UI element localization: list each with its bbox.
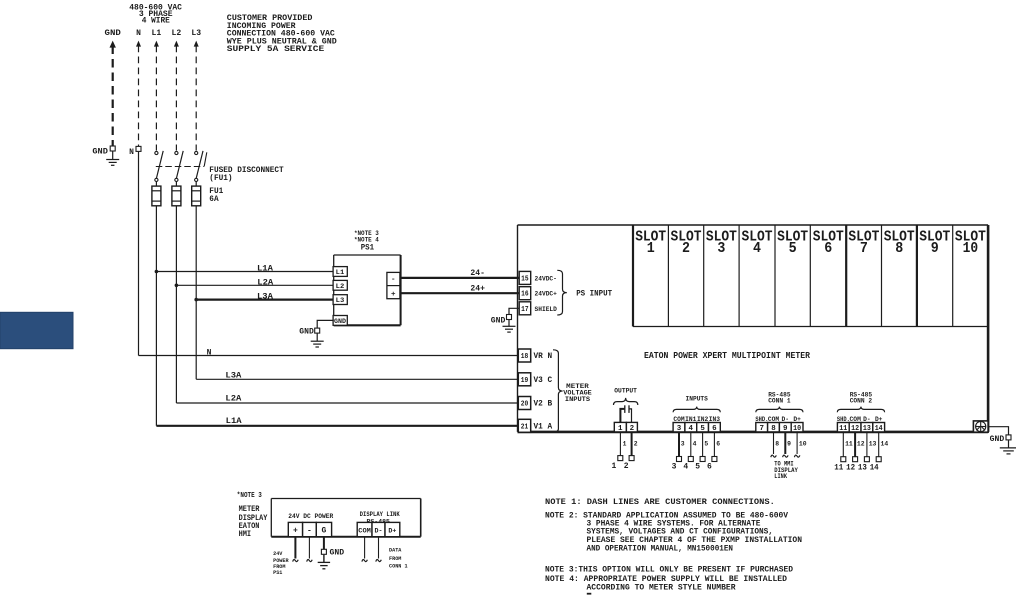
terminal square display GND: [321, 549, 326, 554]
svg-text:*NOTE 3: *NOTE 3: [237, 492, 262, 500]
wire display + 24V: [294, 537, 296, 559]
svg-text:SUPPLY 5A SERVICE: SUPPLY 5A SERVICE: [227, 45, 325, 54]
svg-text:DATA: DATA: [389, 547, 402, 554]
arrow L1 feeder: [154, 41, 159, 47]
svg-text:FROM: FROM: [389, 555, 402, 562]
svg-text:4 WIRE: 4 WIRE: [142, 17, 170, 26]
wire N feeder dashed: [138, 46, 140, 147]
terminal 16 24VDC+: [519, 287, 531, 300]
wire L2 feeder dashed: [175, 46, 177, 151]
svg-text:PS INPUT: PS INPUT: [576, 290, 612, 299]
wire input 5: [702, 432, 704, 457]
svg-text:NOTE 3:THIS OPTION WILL ONLY B: NOTE 3:THIS OPTION WILL ONLY BE PRESENT …: [545, 566, 793, 575]
slot divider 7: [845, 225, 847, 327]
svg-text:PS1: PS1: [361, 244, 375, 253]
wire display G to ground: [323, 537, 325, 550]
terminal 3 input: [673, 423, 685, 432]
fuse FU1-3: [192, 186, 201, 206]
svg-text:DISPLAY LINK: DISPLAY LINK: [360, 511, 400, 518]
svg-text:12: 12: [846, 463, 855, 472]
svg-text:4: 4: [753, 241, 761, 257]
brace RS-485 CONN 1: [756, 407, 803, 413]
svg-text:1: 1: [647, 241, 655, 257]
display terminal -: [303, 522, 317, 536]
fuse FU1-1: [152, 186, 161, 206]
wire conn1 8: [773, 432, 775, 454]
wire display -: [308, 537, 310, 559]
wire L1A tap to PS1: [156, 271, 333, 273]
terminal 5 input: [697, 423, 709, 432]
svg-text:L3A: L3A: [257, 292, 273, 301]
display terminal D-: [372, 522, 385, 536]
brace INPUTS: [673, 407, 720, 413]
svg-text:N: N: [129, 148, 134, 157]
svg-text:3: 3: [717, 241, 725, 257]
svg-text:1: 1: [611, 462, 616, 471]
svg-text:9: 9: [931, 241, 939, 257]
junction L3 tap: [194, 298, 198, 302]
wire L2A tap to PS1: [176, 284, 333, 286]
svg-text:12: 12: [851, 425, 859, 433]
svg-text:21: 21: [521, 423, 529, 431]
wire conn1 10: [796, 432, 798, 454]
svg-text:6: 6: [716, 441, 720, 448]
terminal 15 24VDC-: [519, 271, 531, 284]
svg-text:GND: GND: [299, 328, 314, 337]
disconnect mechanical linkage dashed: [156, 166, 204, 168]
arrow L2 feeder: [174, 41, 179, 47]
terminal square shield GND: [507, 315, 512, 320]
svg-text:14: 14: [881, 441, 889, 448]
wire display D-: [378, 537, 380, 559]
svg-text:5: 5: [695, 462, 700, 471]
PS1 output terminal block - +: [387, 272, 400, 298]
PS1 ground pigtail wire: [317, 320, 334, 328]
leader line to FUSED DISCONNECT label: [204, 152, 207, 166]
ground symbol display: [323, 555, 325, 563]
svg-text:GND: GND: [330, 549, 345, 558]
svg-text:LINK: LINK: [774, 473, 787, 480]
terminal 8 RS-485 conn1: [768, 423, 780, 432]
wire N vertical: [138, 152, 140, 356]
svg-text:24V DC POWER: 24V DC POWER: [288, 513, 333, 520]
svg-text:3: 3: [677, 425, 682, 433]
wire 24+ to terminal 16: [400, 292, 520, 294]
svg-text:8: 8: [775, 441, 779, 448]
svg-text:6: 6: [824, 241, 832, 257]
wire shield pigtail: [509, 308, 519, 314]
svg-text:CONN 1: CONN 1: [389, 562, 408, 569]
terminal 2 output: [626, 422, 637, 432]
arrow GND feeder: [110, 41, 116, 48]
svg-text:L1A: L1A: [226, 417, 242, 426]
break squiggle display -: [307, 559, 313, 561]
svg-text:NOTE 1: DASH LINES ARE CUSTOME: NOTE 1: DASH LINES ARE CUSTOMER CONNECTI…: [545, 498, 775, 507]
junction L1 tap: [155, 270, 159, 274]
ground symbol PS1: [316, 334, 318, 342]
disconnect switch pole L3: [195, 151, 198, 154]
brace PS INPUT: [557, 270, 567, 315]
ground symbol chassis: [1008, 440, 1010, 448]
terminal 17 SHIELD: [519, 302, 531, 315]
svg-text:3: 3: [681, 441, 685, 448]
slot divider 3: [703, 225, 705, 327]
break squiggle display COM: [362, 559, 368, 561]
terminal square GND service: [110, 146, 115, 151]
svg-text:+: +: [391, 291, 396, 299]
ground symbol shield: [508, 320, 510, 326]
wire conn2 13: [866, 432, 868, 457]
wire L1 feeder dashed: [155, 46, 157, 151]
svg-text:D-: D-: [375, 528, 383, 536]
svg-text:N: N: [207, 349, 212, 358]
display terminal G: [316, 522, 331, 536]
svg-text:13: 13: [869, 441, 877, 448]
svg-text:2: 2: [624, 462, 629, 471]
meter enclosure EATON PXMP: [518, 224, 989, 226]
terminal square conn2 11: [841, 457, 846, 462]
svg-text:11: 11: [845, 441, 853, 448]
svg-text:L1A: L1A: [257, 264, 273, 273]
wire L1A to meter V1: [156, 425, 519, 427]
power supply PS1 box: [334, 254, 401, 256]
svg-text:INPUTS: INPUTS: [565, 396, 591, 403]
slot divider 2: [667, 225, 669, 327]
brace METER VOLTAGE INPUTS: [553, 350, 563, 433]
svg-text:EATON POWER XPERT MULTIPOINT M: EATON POWER XPERT MULTIPOINT METER: [644, 350, 810, 361]
PS1 terminal L2: [333, 280, 347, 290]
PS1 terminal L1: [333, 267, 347, 277]
svg-text:19: 19: [521, 377, 529, 385]
arrow L3 feeder: [194, 41, 199, 47]
terminal 4 input: [685, 423, 697, 432]
svg-text:SHIELD: SHIELD: [535, 306, 557, 313]
svg-text:7: 7: [860, 241, 868, 257]
terminal 21 V1 A: [518, 419, 530, 432]
slot divider 5: [774, 225, 776, 327]
terminal 20 V2 B: [518, 397, 530, 410]
wire input 3: [678, 432, 680, 457]
svg-text:CONN 2: CONN 2: [850, 397, 873, 404]
svg-text:11: 11: [834, 463, 843, 472]
terminal 11 RS-485 conn2: [837, 423, 849, 432]
svg-text:GND: GND: [92, 147, 108, 156]
svg-text:4: 4: [693, 441, 697, 448]
svg-text:10: 10: [963, 241, 979, 257]
svg-text:G: G: [321, 527, 326, 536]
terminal square chassis GND: [1006, 435, 1011, 440]
terminal square output 2: [629, 456, 634, 461]
svg-text:18: 18: [521, 353, 529, 361]
svg-text:16: 16: [521, 291, 529, 299]
wire L3 feeder dashed: [195, 46, 197, 151]
terminal 7 RS-485 conn1: [756, 423, 768, 432]
display terminal COM: [357, 522, 372, 536]
wire FU1-2 upper lead: [175, 181, 177, 186]
svg-text:2: 2: [634, 441, 638, 448]
terminal square conn2 13: [864, 457, 869, 462]
svg-text:6: 6: [707, 462, 712, 471]
terminal square output 1: [618, 456, 623, 461]
terminal square input 3: [677, 457, 682, 462]
PS1 terminal L3: [333, 295, 347, 305]
terminal square input 6: [712, 457, 717, 462]
wire conn2 14: [878, 432, 880, 457]
svg-text:8: 8: [895, 241, 903, 257]
svg-text:13: 13: [858, 463, 867, 472]
svg-text:4: 4: [689, 425, 694, 433]
brace OUTPUT: [614, 398, 638, 405]
svg-text:4: 4: [683, 462, 688, 471]
svg-text:HMI: HMI: [239, 529, 252, 539]
svg-text:AND OPERATION MANUAL, MN150001: AND OPERATION MANUAL, MN150001EN: [587, 545, 734, 554]
svg-text:L2A: L2A: [225, 394, 241, 403]
svg-text:COM: COM: [358, 528, 371, 536]
svg-text:11: 11: [839, 425, 847, 433]
svg-text:2: 2: [682, 241, 690, 257]
arrow N feeder: [136, 41, 141, 47]
svg-text:2: 2: [630, 425, 635, 433]
svg-text:3: 3: [672, 462, 677, 471]
wire display COM: [364, 537, 366, 559]
wire L2A to meter V2: [176, 402, 519, 404]
wire L3A to meter V3: [196, 378, 519, 380]
break squiggle conn1 8: [771, 455, 777, 457]
svg-text:L1: L1: [336, 269, 345, 276]
svg-text:24+: 24+: [470, 284, 485, 293]
terminal square PS1 GND: [315, 328, 320, 333]
wire chassis to GND: [988, 427, 1008, 435]
svg-text:9: 9: [783, 425, 788, 433]
wire L3 vertical: [195, 206, 197, 379]
terminal 1 output: [614, 422, 626, 432]
svg-text:20: 20: [521, 401, 529, 409]
svg-text:D+: D+: [388, 528, 396, 536]
meter display box: [271, 498, 420, 500]
svg-text:CONN 1: CONN 1: [768, 397, 791, 404]
slot divider 10: [952, 225, 954, 327]
partial text cut at bottom edge: [587, 593, 592, 595]
svg-text:14: 14: [875, 425, 883, 433]
wire 24- to terminal 15: [400, 277, 520, 279]
blue sidebar tab: [0, 312, 73, 348]
svg-text:13: 13: [863, 425, 871, 433]
break squiggle conn1 9: [783, 455, 789, 457]
svg-text:24VDC+: 24VDC+: [535, 291, 557, 298]
svg-text:L3A: L3A: [225, 371, 241, 380]
wire input 6: [713, 432, 715, 457]
svg-text:5: 5: [700, 425, 705, 433]
slot divider 9: [916, 225, 918, 327]
terminal 10 RS-485 conn1: [791, 423, 803, 432]
svg-text:1: 1: [618, 425, 623, 433]
terminal 18 VR N: [518, 349, 530, 362]
svg-text:-: -: [307, 527, 312, 536]
svg-text:GND: GND: [105, 29, 122, 38]
svg-text:15: 15: [521, 275, 529, 283]
disconnect switch pole L1: [155, 151, 158, 154]
terminal 6 input: [709, 423, 721, 432]
svg-text:9: 9: [787, 441, 791, 448]
display terminal +: [288, 522, 302, 536]
wire L2 vertical: [175, 206, 177, 403]
svg-text:17: 17: [521, 306, 529, 314]
svg-text:GND: GND: [334, 318, 346, 325]
svg-text:GND: GND: [491, 317, 506, 326]
relay contact output: [620, 409, 624, 423]
slot divider 4: [738, 225, 740, 327]
wire input 4: [690, 432, 692, 457]
brace RS-485 CONN 2: [837, 407, 884, 413]
ground symbol service entrance: [112, 151, 114, 159]
junction L2 tap: [175, 284, 179, 288]
wire L3A tap to PS1: [196, 299, 334, 301]
svg-text:5: 5: [704, 441, 708, 448]
svg-text:24-: 24-: [470, 269, 485, 278]
svg-text:V1 A: V1 A: [534, 423, 553, 432]
wire conn1 9: [784, 432, 786, 454]
wire output 2: [631, 432, 633, 456]
terminal square conn2 14: [876, 457, 881, 462]
chassis ground symbol meter corner: [973, 421, 988, 432]
PS1 terminal GND: [333, 316, 347, 326]
display terminal D+: [385, 522, 400, 536]
fuse FU1-2: [172, 186, 181, 206]
svg-text:V3 C: V3 C: [534, 376, 553, 385]
svg-text:V2 B: V2 B: [534, 400, 553, 409]
svg-text:1: 1: [623, 441, 627, 448]
slot divider 1: [632, 225, 634, 327]
terminal 13 RS-485 conn2: [861, 423, 873, 432]
svg-text:-: -: [391, 276, 396, 284]
svg-text:L2: L2: [336, 283, 345, 290]
slot divider 8: [881, 225, 883, 327]
svg-text:6A: 6A: [209, 195, 218, 204]
terminal 14 RS-485 conn2: [873, 423, 885, 432]
break squiggle display D-: [376, 559, 382, 561]
wire FU1-1 upper lead: [155, 181, 157, 186]
break squiggle conn1 10: [794, 455, 800, 457]
svg-text:N: N: [136, 29, 141, 38]
svg-text:12: 12: [857, 441, 865, 448]
svg-text:5: 5: [789, 241, 797, 257]
svg-text:PS1: PS1: [273, 569, 283, 576]
svg-text:8: 8: [771, 425, 776, 433]
svg-text:10: 10: [793, 425, 801, 433]
svg-text:24VDC-: 24VDC-: [535, 275, 557, 282]
wire FU1-3 upper lead: [195, 181, 197, 186]
slot divider 6: [809, 225, 811, 327]
wire N to meter VR: [139, 355, 519, 357]
svg-text:10: 10: [799, 441, 807, 448]
wire L1 vertical: [155, 206, 157, 426]
terminal 9 RS-485 conn1: [779, 423, 791, 432]
svg-text:ACCORDING TO METER STYLE NUMBE: ACCORDING TO METER STYLE NUMBER: [587, 584, 736, 593]
wire output 1: [619, 432, 621, 456]
wire GND feeder dashed: [112, 46, 114, 147]
svg-text:VR N: VR N: [534, 352, 553, 361]
disconnect switch pole L2: [175, 151, 178, 154]
svg-text:L1: L1: [152, 29, 162, 38]
svg-text:L3: L3: [336, 297, 345, 304]
svg-text:(FU1): (FU1): [209, 174, 232, 183]
svg-text:GND: GND: [990, 435, 1005, 444]
svg-text:L3: L3: [191, 29, 201, 38]
svg-text:14: 14: [870, 463, 879, 472]
svg-text:+: +: [293, 527, 298, 536]
svg-text:6: 6: [712, 425, 717, 433]
terminal square N: [136, 146, 141, 151]
svg-text:OUTPUT: OUTPUT: [614, 388, 637, 395]
wire conn2 11: [842, 432, 844, 457]
wire conn2 12: [854, 432, 856, 457]
slot area bottom line: [633, 326, 988, 328]
terminal 19 V3 C: [518, 373, 530, 386]
terminal square input 4: [688, 457, 693, 462]
svg-text:L2A: L2A: [257, 278, 273, 287]
terminal square conn2 12: [853, 457, 858, 462]
svg-text:INPUTS: INPUTS: [686, 396, 709, 403]
terminal 12 RS-485 conn2: [849, 423, 861, 432]
break squiggle display +: [293, 559, 299, 561]
svg-text:7: 7: [759, 425, 764, 433]
svg-text:L2: L2: [172, 29, 182, 38]
terminal square input 5: [700, 457, 705, 462]
